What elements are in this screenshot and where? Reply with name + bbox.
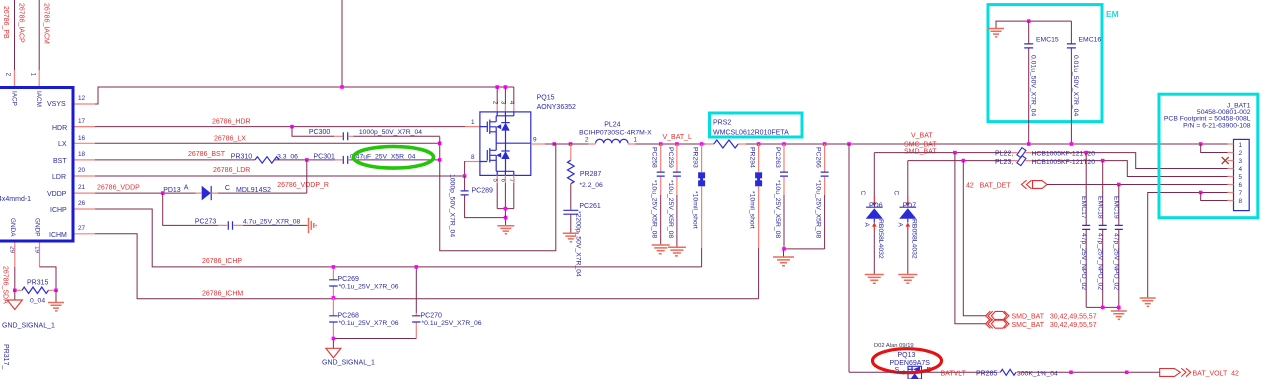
node PR287 branch (569, 142, 573, 146)
capacitor EMC15 (1024, 21, 1059, 144)
svg-text:*10mil_short: *10mil_short (749, 191, 756, 229)
node EMC18 gnd (1101, 306, 1105, 310)
node PR315 right (54, 289, 58, 293)
svg-text:8: 8 (471, 154, 475, 161)
svg-text:EMC18: EMC18 (1097, 196, 1104, 219)
svg-text:3: 3 (500, 101, 507, 105)
svg-text:EMC19: EMC19 (1113, 196, 1120, 219)
capacitor PC266 (815, 144, 829, 249)
diode PD13 MDL914S2 (163, 185, 271, 201)
wire 26786_LDR (pin20 to PQ15 pin8) (95, 162, 480, 177)
resistor PRS2 (current sense) (706, 140, 746, 148)
wire J pin7/8 to ground (1148, 193, 1228, 298)
ground under PC258 (652, 245, 670, 254)
svg-text:1: 1 (30, 73, 37, 77)
svg-text:47p_25V_NPO_02: 47p_25V_NPO_02 (1080, 233, 1087, 290)
svg-text:RB058L4032: RB058L4032 (910, 219, 917, 259)
svg-text:BCIHP0730SC-4R7M-X: BCIHP0730SC-4R7M-X (579, 129, 652, 136)
svg-text:26786_PB: 26786_PB (2, 6, 9, 39)
capacitor PC258 (651, 144, 665, 244)
svg-text:4: 4 (508, 101, 515, 105)
capacitor EMC17 (1080, 153, 1090, 308)
svg-text:3: 3 (1239, 158, 1243, 165)
node V_BAT down-branch (847, 142, 851, 146)
svg-text:0_04: 0_04 (30, 298, 45, 305)
svg-text:26786_VDDP_R: 26786_VDDP_R (277, 182, 329, 189)
pin stub ICHM 27 (75, 233, 96, 235)
node J pin1 junction (1199, 142, 1203, 146)
svg-text:*10u_25V_X5R_08: *10u_25V_X5R_08 (651, 180, 658, 238)
capacitor EMC16 (1067, 21, 1101, 144)
inductor PL24 BCIHP0730SC-4R7M-X (579, 121, 652, 144)
svg-text:C: C (859, 191, 866, 196)
svg-text:PQ15: PQ15 (537, 94, 555, 101)
ground in EM box (988, 29, 1004, 37)
svg-text:26786_IACM: 26786_IACM (43, 3, 50, 44)
transistor PQ13 PDEN69A7S (890, 352, 932, 379)
svg-text:26786_ICHM: 26786_ICHM (202, 291, 243, 298)
wire SMC_BAT (PD6 top to PL22 to J pin4) (874, 153, 1227, 169)
svg-text:AONY36352: AONY36352 (537, 104, 576, 111)
node gnd rail (332, 337, 336, 341)
svg-text:GNDA: GNDA (9, 218, 16, 237)
wire VSYS vertical riser at x=342 (341, 0, 343, 87)
wire 26786_LX (pin16 to bootstrap vertical) (95, 142, 440, 144)
pin stub GNDA 29 (14, 243, 16, 267)
svg-text:WMCSL0612R010FETA: WMCSL0612R010FETA (713, 130, 789, 137)
wire 26786_VDDP_R (PD13 cathode to BST node) (211, 160, 307, 193)
svg-text:3.3_06: 3.3_06 (277, 153, 298, 160)
svg-text:2: 2 (1239, 150, 1243, 157)
node EMC17 on SMC wire (1084, 151, 1088, 155)
node PC263 gnd (782, 247, 786, 251)
svg-text:26786_HDR: 26786_HDR (212, 119, 251, 126)
wire EMC gnd rail (1086, 307, 1119, 310)
svg-text:1000p_50V_X7R_04: 1000p_50V_X7R_04 (359, 129, 422, 136)
wire IACM into chip top pin 1 (38, 0, 40, 87)
svg-text:LX: LX (58, 141, 67, 148)
pin stub J5 (1228, 176, 1234, 178)
node PQ15 gnd (504, 207, 508, 211)
wire J pin2 branch (1201, 144, 1228, 153)
wire 26786_VDDP (pin21 to PD13 anode) (95, 192, 202, 194)
wire BAT_DET (to J pin6) (1047, 184, 1228, 186)
svg-text:*0.1u_25V_X7R_06: *0.1u_25V_X7R_06 (422, 320, 482, 327)
ground (rotated earth, right-facing) at PC273 (309, 218, 317, 233)
svg-text:PL24: PL24 (604, 121, 620, 128)
wire GNDA to PR315 left (14, 267, 16, 290)
svg-text:26786_SDA: 26786_SDA (2, 266, 9, 304)
pin stub LDR 20 (75, 175, 96, 177)
svg-text:GNDP: GNDP (34, 218, 41, 236)
wire 26786_HDR (pin17 to PQ15 pin1) (95, 126, 480, 128)
capacitor PC300 (309, 129, 422, 140)
node PC263 (782, 142, 786, 146)
capacitor PC263 (774, 144, 788, 249)
svg-text:PC300: PC300 (309, 129, 331, 136)
svg-text:PR315: PR315 (27, 279, 49, 286)
svg-text:PC301: PC301 (314, 153, 336, 160)
pin stub ICHP 26 (75, 208, 96, 210)
node VSYS riser junction (340, 85, 344, 89)
node EMC15 top (1027, 19, 1031, 23)
node PR293 (700, 142, 704, 146)
svg-text:0.01u_50V_X7R_04: 0.01u_50V_X7R_04 (1030, 55, 1037, 116)
wire VSYS from pin12 up to top rail (95, 87, 514, 104)
pin stub J8 (1228, 200, 1234, 202)
svg-text:PR293: PR293 (692, 147, 699, 168)
pin stub J7 (1228, 192, 1234, 194)
ground under PD7 (898, 275, 917, 284)
svg-text:18: 18 (78, 151, 86, 158)
node BST / VDDP_R junction (305, 158, 309, 162)
pin stub J1 (1228, 143, 1234, 145)
node LX vertical junction (438, 142, 442, 146)
svg-text:C: C (225, 185, 230, 192)
svg-text:1: 1 (1239, 142, 1243, 149)
highlight cyan box EM (EMC15/EMC16) (988, 5, 1102, 122)
svg-text:PC263: PC263 (774, 147, 781, 168)
svg-text:A: A (863, 223, 870, 228)
svg-text:42 BAT_DET: 42 BAT_DET (966, 183, 1011, 190)
resistor PR293 *0mil_short (692, 144, 706, 267)
svg-text:ICHP: ICHP (50, 207, 67, 214)
ground (hatched) under PR315 right (48, 290, 64, 311)
svg-text:GND_SIGNAL_1: GND_SIGNAL_1 (2, 323, 55, 330)
node BST cap right junction (438, 158, 442, 162)
node VDDP / PC273 junction (161, 191, 165, 195)
node EMC19 gnd (1117, 306, 1121, 310)
svg-text:PL22,: PL22, (995, 151, 1013, 158)
svg-text:47p_25V_NPO_02: 47p_25V_NPO_02 (1113, 233, 1120, 290)
bottom FET (480, 143, 531, 171)
wire PC273 branch from VDDP (163, 193, 308, 225)
svg-text:47p_25V_NPO_02: 47p_25V_NPO_02 (1097, 233, 1104, 290)
ferrite bead PL23 HCB1005KF-121T20 (995, 156, 1095, 166)
pin stub LX 16 (75, 142, 96, 144)
svg-text:SMD_BAT 30,42,49,55,57: SMD_BAT 30,42,49,55,57 (1012, 314, 1097, 321)
ground under EMC caps (1111, 311, 1127, 319)
wire BATVLT (PQ13 to PR285 to BAT_VOLT) (849, 371, 1160, 373)
capacitor EMC18 (1097, 161, 1107, 308)
wire J pin8 branch (1201, 193, 1228, 201)
node PC266 (823, 142, 827, 146)
node SMD arrow branch (962, 159, 966, 163)
svg-text:PR317_: PR317_ (2, 344, 9, 369)
wire PC300 branch (292, 127, 440, 137)
svg-text:GND_SIGNAL_1: GND_SIGNAL_1 (322, 360, 375, 367)
svg-text:PQ13: PQ13 (898, 352, 916, 359)
node PC258 (659, 142, 663, 146)
svg-text:300K_1%_04: 300K_1%_04 (1017, 370, 1058, 377)
node EMC15 on V_BAT (1027, 142, 1031, 146)
node VSYS PQ15 pin2 (495, 85, 499, 89)
capacitor PC301 (314, 153, 416, 164)
svg-text:12: 12 (78, 95, 86, 102)
svg-text:*10u_25V_X5R_08: *10u_25V_X5R_08 (774, 180, 781, 238)
capacitor PC261 (563, 203, 601, 277)
ground under PC259 (668, 247, 686, 256)
svg-text:*2.2_06: *2.2_06 (579, 182, 603, 189)
node EMC16 on V_BAT (1070, 142, 1074, 146)
node pin9 junction (553, 142, 557, 146)
wire SMC_BAT to off-page arrow (955, 153, 986, 324)
svg-text:*0.1u_25V_X7R_06: *0.1u_25V_X7R_06 (339, 284, 399, 291)
svg-text:2: 2 (491, 101, 498, 105)
svg-text:*10u_25V_X5R_08: *10u_25V_X5R_08 (667, 180, 674, 238)
capacitor PC270 (412, 267, 482, 339)
node PR294 (757, 142, 761, 146)
diode PD7 RB058L4032 (892, 161, 917, 274)
svg-text:VSYS: VSYS (47, 101, 66, 108)
wire 26786_ICHP (pin26 to PR293 bottom) (95, 209, 702, 267)
resistor PR287 (snubber) (568, 144, 604, 210)
svg-text:PD6: PD6 (869, 202, 883, 209)
svg-text:26786_LDR: 26786_LDR (213, 167, 250, 174)
resistor PR285 (976, 369, 1058, 377)
wire PQ15 bottom pins to ground rail (497, 175, 514, 225)
svg-text:PRS2: PRS2 (713, 120, 731, 127)
svg-text:16: 16 (78, 135, 86, 142)
svg-text:*2200p_50V_X7R_04: *2200p_50V_X7R_04 (575, 211, 582, 277)
svg-text:A: A (184, 185, 189, 192)
resistor PR294 *0mil_short (749, 144, 763, 299)
wire EMC15/16 top rail (996, 21, 1071, 28)
svg-text:V_BAT: V_BAT (911, 133, 933, 140)
node EMC19 on BAT_DET (1117, 183, 1121, 187)
svg-text:VDDP: VDDP (47, 191, 67, 198)
highlight cyan box PRS2 (710, 113, 803, 137)
svg-text:*10u_25V_X5R_08: *10u_25V_X5R_08 (815, 180, 822, 238)
svg-text:EM: EM (1106, 9, 1119, 19)
wire V_BAT rail (PRS2 to J_BAT1) (746, 143, 1228, 145)
node BATVLT 2 (1125, 371, 1129, 375)
wire V_BAT_L rail (PL24 to PRS2) (545, 143, 706, 145)
resistor PR315 (15, 279, 56, 304)
pin stub VSYS 12 (75, 103, 96, 105)
svg-text:*0.1u_25V_X7R_06: *0.1u_25V_X7R_06 (339, 320, 399, 327)
capacitor PC259 (667, 144, 681, 247)
svg-text:5: 5 (1239, 174, 1243, 181)
pin stub J2 (1228, 152, 1234, 154)
svg-text:BAT_VOLT 42: BAT_VOLT 42 (1193, 371, 1240, 378)
pin stub J6 (1228, 184, 1234, 186)
wire SMD_BAT to off-page arrow (963, 161, 985, 316)
svg-text:PC289: PC289 (472, 187, 494, 194)
capacitor EMC19 (1113, 185, 1123, 308)
svg-text:2: 2 (585, 137, 589, 144)
svg-text:1: 1 (633, 137, 637, 144)
svg-text:1000p_50V_X7R_04: 1000p_50V_X7R_04 (449, 174, 456, 237)
svg-text:9: 9 (533, 137, 537, 144)
capacitor PC289 (449, 174, 506, 237)
node J pin7 junction (1199, 191, 1203, 195)
wire IACP into chip top pin 2 (14, 0, 16, 87)
svg-text:EMC16: EMC16 (1079, 37, 1102, 44)
pin stub PQ15 pin9 (531, 143, 545, 145)
svg-text:ICHM: ICHM (49, 232, 67, 239)
svg-text:A: A (896, 223, 903, 228)
node PC259 (675, 142, 679, 146)
svg-text:26786_VDDP: 26786_VDDP (97, 185, 140, 192)
capacitor PC268 (329, 298, 399, 339)
highlight green ellipse around PC301 value (354, 147, 434, 169)
node VSYS PQ15 pin3 (504, 85, 508, 89)
off-page connector BAT_DET (1022, 180, 1048, 189)
node SMC arrow branch (953, 151, 957, 155)
svg-text:SMC_BAT 30,42,49,55,57: SMC_BAT 30,42,49,55,57 (1012, 322, 1097, 329)
svg-text:7: 7 (1239, 190, 1243, 197)
wire LX bootstrap loop (vertical + around PQ15 to pin9 node) (440, 137, 556, 251)
node PC269 top (332, 265, 336, 269)
svg-text:PD7: PD7 (903, 202, 917, 209)
ground GND_SIGNAL_1 triangle (left) (2, 290, 55, 329)
off-page connector BAT_VOLT (1160, 368, 1239, 377)
wire V_BAT vertical to PQ13 (848, 144, 850, 372)
svg-text:26786_IACP: 26786_IACP (18, 3, 25, 43)
svg-text:PR285: PR285 (976, 370, 998, 377)
svg-text:1: 1 (471, 119, 475, 126)
pin stub GNDP 19 (39, 243, 41, 267)
ferrite bead PL22 HCB1005KF-121T20 (995, 148, 1095, 158)
capacitor PC269 (329, 267, 399, 298)
wire BST node to PC301 (274, 159, 440, 161)
svg-text:IACP: IACP (11, 91, 18, 106)
highlight red ellipse around PQ13 (873, 349, 942, 373)
connector J_BAT1 (1159, 94, 1258, 218)
node BATVLT 1 (1069, 371, 1073, 375)
svg-text:V_BAT_L: V_BAT_L (663, 134, 693, 141)
svg-text:EMC15: EMC15 (1036, 37, 1059, 44)
svg-text:PC270: PC270 (421, 313, 443, 320)
ground under PQ15 (497, 226, 514, 234)
svg-text:C: C (892, 191, 899, 196)
svg-text:17: 17 (78, 118, 86, 125)
svg-text:20: 20 (78, 167, 86, 174)
node PC270 top (415, 265, 419, 269)
wire PC263/PC266 gnd rail (784, 249, 825, 257)
svg-text:PC269: PC269 (338, 276, 360, 283)
svg-text:27: 27 (78, 225, 86, 232)
svg-text:SMD_BAT: SMD_BAT (904, 148, 937, 155)
pin stub HDR 17 (75, 126, 96, 128)
svg-text:BATVLT: BATVLT (941, 370, 967, 377)
top FET (480, 116, 514, 143)
svg-text:BST: BST (53, 158, 67, 165)
resistor PR310 (231, 153, 298, 163)
node PC289 gnd rail (504, 216, 508, 220)
transistor PQ15 AONY36352 (dual N-MOSFET) (471, 94, 576, 182)
svg-text:PR294: PR294 (749, 147, 756, 168)
node PC269 bottom (332, 296, 336, 300)
svg-text:4x4mmd-1: 4x4mmd-1 (0, 196, 31, 203)
pin stub BST 18 (75, 159, 96, 161)
chip U (battery charger IC, partial at left) (0, 73, 86, 254)
svg-text:PR287: PR287 (580, 171, 602, 178)
svg-text:8: 8 (1239, 198, 1243, 205)
svg-text:26786_BST: 26786_BST (188, 151, 226, 158)
svg-text:26786_LX: 26786_LX (214, 135, 246, 142)
svg-text:6: 6 (1239, 182, 1243, 189)
svg-text:4: 4 (1239, 166, 1243, 173)
ground GND_SIGNAL_1 (center) (322, 348, 375, 366)
svg-text:PL23,: PL23, (995, 159, 1013, 166)
svg-text:PC266: PC266 (815, 147, 822, 168)
svg-text:HCB1005KF-121T20: HCB1005KF-121T20 (1032, 159, 1096, 166)
node HDR / PC300 junction (290, 125, 294, 129)
node LDR / PC289 junction (463, 174, 467, 178)
off-page connector SMD_BAT (986, 311, 1097, 321)
svg-text:PC258: PC258 (651, 147, 658, 168)
ground under PC263/PC266 (773, 257, 794, 266)
svg-text:2: 2 (5, 73, 12, 77)
ground under PC261 (563, 233, 579, 241)
wire GNDP to PR315 right (40, 267, 57, 290)
wire PQ15 top pin drops (497, 87, 514, 112)
node PR315 left (13, 289, 17, 293)
svg-text:PD13: PD13 (163, 187, 181, 194)
svg-text:P/N = 6-21-63900-108: P/N = 6-21-63900-108 (1183, 122, 1251, 129)
svg-text:*10mil_short: *10mil_short (692, 191, 699, 229)
svg-text:4.7u_25V_X7R_08: 4.7u_25V_X7R_08 (243, 219, 301, 226)
svg-text:PC259: PC259 (667, 147, 674, 168)
node EMC18 on SMD wire (1101, 159, 1105, 163)
pin stub J3 (1228, 160, 1234, 162)
wire SMD_BAT (PD7 top to PL23 to J pin5) (908, 161, 1228, 177)
svg-text:LDR: LDR (52, 174, 66, 181)
svg-text:HDR: HDR (52, 125, 67, 132)
svg-text:26: 26 (78, 200, 86, 207)
off-page connector SMC_BAT (986, 319, 1097, 329)
svg-text:PC268: PC268 (338, 313, 360, 320)
svg-text:0.01u_50V_X7R_04: 0.01u_50V_X7R_04 (1072, 55, 1079, 116)
svg-text:EMC17: EMC17 (1080, 196, 1087, 219)
ground under PD6 (865, 275, 884, 284)
svg-text:21: 21 (78, 184, 86, 191)
pin stub J4 (1228, 168, 1234, 170)
svg-text:26786_ICHP: 26786_ICHP (202, 258, 242, 265)
svg-text:IACM: IACM (35, 91, 42, 107)
svg-text:PR310: PR310 (231, 153, 253, 160)
wire 26786_ICHM (pin27 to PR294 bottom) (95, 234, 759, 299)
svg-text:PC261: PC261 (579, 203, 601, 210)
wire 26786_BST (pin18 to PR310) (95, 159, 255, 161)
capacitor PC273 (195, 219, 301, 230)
svg-text:0.47uF_25V_X5R_04: 0.47uF_25V_X5R_04 (350, 153, 416, 160)
diode PD6 RB058L4032 (859, 153, 884, 274)
wire PC268/PC270 gnd rail (333, 339, 416, 349)
svg-text:PC273: PC273 (195, 219, 217, 226)
svg-text:RB058L4032: RB058L4032 (877, 219, 884, 259)
no-connect X on pin3 (1222, 157, 1229, 164)
ground at J pin7/8 (1140, 298, 1156, 306)
pin stub VDDP 21 (75, 192, 96, 194)
